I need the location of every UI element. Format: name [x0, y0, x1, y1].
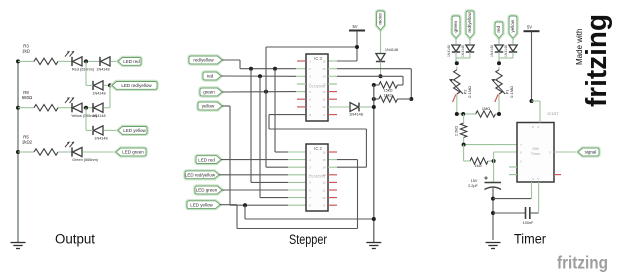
node output bus mid	[16, 106, 20, 110]
diode D5 1N4148 vertical	[376, 54, 385, 62]
svg-text:1N4148: 1N4148	[490, 45, 494, 57]
svg-text:5V: 5V	[352, 24, 357, 29]
node bottom rail	[372, 217, 376, 221]
resistor R8	[34, 105, 58, 111]
wire yellow down	[229, 106, 231, 205]
net tag LED red/yellow stepper	[185, 171, 219, 179]
svg-text:10: 10	[322, 196, 326, 200]
net tag yellow timer	[509, 16, 517, 38]
net tag LED green	[116, 148, 146, 156]
node red/yellow 2	[273, 67, 277, 71]
power +5V stepper	[349, 24, 365, 31]
net tag red/yellow	[189, 56, 222, 64]
node red/yellow 1	[249, 67, 253, 71]
resistor R15a	[379, 82, 398, 88]
wire down to R1k	[463, 145, 465, 161]
svg-text:14: 14	[322, 75, 326, 79]
wire R5 left lead	[18, 151, 34, 153]
svg-text:555: 555	[532, 147, 538, 151]
wire LEDyellow down	[236, 205, 238, 229]
resistor R3	[34, 58, 58, 64]
wire 1k junction up	[494, 152, 517, 181]
wire yellow to IC2 pin8	[230, 204, 306, 206]
svg-text:IC1ST: IC1ST	[547, 111, 559, 116]
node D5 rail	[379, 74, 383, 78]
bottom rail stepper	[245, 205, 374, 219]
logo fritzing vertical	[581, 14, 613, 107]
label IC 555	[547, 111, 559, 116]
svg-text:1MΩ: 1MΩ	[482, 106, 491, 111]
wire R8 left lead	[18, 107, 34, 109]
svg-text:green: green	[203, 90, 215, 95]
wire node A down	[85, 61, 87, 85]
svg-text:13: 13	[322, 82, 326, 86]
node 555 left	[462, 143, 466, 147]
wire node C down	[85, 108, 87, 131]
svg-text:15: 15	[322, 67, 326, 71]
svg-text:100nF: 100nF	[523, 221, 534, 225]
svg-text:LED red/yellow: LED red/yellow	[185, 173, 216, 178]
IC U3 555 timer	[517, 123, 554, 183]
label R5 value	[22, 135, 33, 145]
wire D2 to node B	[104, 84, 112, 86]
wire IC1 pin8 rail	[269, 115, 366, 168]
net tag signal	[578, 148, 599, 156]
pin stubs IC2 right	[328, 152, 337, 205]
label D3	[92, 114, 105, 118]
wire R1k leads	[464, 160, 494, 162]
svg-text:fritzing: fritzing	[557, 253, 608, 273]
svg-text:1kΩ: 1kΩ	[474, 163, 481, 168]
net tag LED green stepper	[195, 186, 222, 194]
svg-text:Stepper: Stepper	[289, 232, 327, 247]
svg-text:2.2kΩ: 2.2kΩ	[454, 126, 459, 137]
svg-text:yellow: yellow	[510, 19, 515, 32]
node pot P2 top	[455, 61, 459, 65]
wire rail down right	[410, 69, 412, 99]
wire LEDred to IC2 pin2	[221, 159, 306, 161]
wire tag2 down	[469, 38, 471, 44]
label R3 value	[22, 44, 31, 54]
svg-text:LED green: LED green	[122, 150, 144, 155]
svg-text:red/yellow: red/yellow	[467, 11, 472, 32]
LED LED3 green	[65, 142, 82, 157]
diode D2 1N4148	[93, 81, 103, 90]
wire node B down	[109, 85, 111, 107]
wire R15a right up	[398, 76, 404, 85]
potentiometer P2	[450, 67, 472, 102]
net tag LED yellow stepper	[187, 201, 220, 209]
svg-text:1N4148: 1N4148	[349, 112, 364, 117]
label D6	[349, 112, 364, 117]
svg-text:LED red/yellow: LED red/yellow	[121, 83, 152, 88]
wire drop4 to IC2 pin1	[275, 69, 306, 152]
wire to IC555 pin a	[464, 144, 517, 146]
wire D4 to tag	[104, 129, 118, 131]
net tag LED red/yellow	[112, 82, 157, 90]
resistor R2k2 vertical	[460, 123, 466, 138]
diode D6 1N4148	[328, 103, 374, 112]
resistor R1k	[470, 158, 488, 164]
label R15a R15b	[383, 88, 392, 98]
label R1k	[474, 163, 481, 168]
svg-text:15: 15	[322, 158, 326, 162]
svg-text:yellow: yellow	[202, 104, 215, 109]
wire jog to top pin	[530, 99, 541, 123]
wire to C2	[493, 212, 525, 214]
wire C to D4	[86, 129, 93, 131]
svg-text:14: 14	[322, 166, 326, 170]
wire LEDgreen to IC2 pin6	[222, 189, 306, 191]
wire tag4 down	[512, 38, 514, 44]
svg-text:LED yellow: LED yellow	[190, 202, 213, 207]
svg-text:16: 16	[322, 59, 326, 63]
wire output left bus	[17, 61, 19, 242]
node output bus low	[16, 150, 20, 154]
net tag green timer	[452, 16, 460, 38]
pin stubs 555	[509, 167, 561, 175]
svg-text:LED green: LED green	[196, 188, 218, 193]
wire to 555 bottom pin1	[493, 182, 532, 199]
node R1M left	[455, 112, 501, 116]
svg-text:signal: signal	[585, 150, 597, 155]
wire top rail	[266, 46, 357, 48]
IC U2 stepper driver	[306, 144, 328, 211]
wire D3 to node B leg	[104, 107, 110, 109]
node R left b	[372, 97, 376, 101]
svg-text:680Ω: 680Ω	[22, 95, 33, 100]
wire LEDyellow bottom run	[237, 228, 358, 230]
svg-text:Timer: Timer	[514, 232, 546, 247]
wire 5V drop	[356, 31, 358, 61]
wire bus D2 left	[86, 84, 93, 86]
wire pin2 right rail	[328, 68, 411, 70]
net tag yellow	[198, 102, 222, 110]
section title Output	[55, 232, 95, 247]
wire red to IC1 pin3	[221, 75, 306, 77]
diode D7 1N4148	[452, 45, 460, 52]
svg-text:1kΩ: 1kΩ	[22, 49, 31, 54]
wire yellow corner	[222, 105, 230, 107]
wire Vrail left down	[265, 47, 267, 92]
svg-text:Timer: Timer	[531, 152, 541, 156]
svg-text:red: red	[496, 25, 501, 32]
svg-text:1N4148: 1N4148	[385, 48, 398, 52]
label D8	[461, 45, 465, 57]
wire pin3 right row	[328, 75, 403, 77]
node A	[84, 59, 88, 63]
wire R3 to LED1	[58, 60, 72, 62]
node pot P1 top	[497, 61, 501, 65]
svg-text:green: green	[453, 20, 458, 32]
node red	[258, 74, 262, 78]
label LED1	[72, 68, 95, 72]
svg-text:15kΩ: 15kΩ	[383, 93, 392, 98]
label C2	[523, 221, 534, 225]
wire LED3 to tag	[83, 151, 116, 153]
svg-text:1kΩ2: 1kΩ2	[22, 140, 33, 145]
wire LED1 to node A	[83, 60, 100, 62]
svg-text:IC 3: IC 3	[314, 56, 322, 61]
wire LED2 to node C	[83, 107, 93, 109]
capacitor C1 2.2uF	[484, 176, 501, 198]
node yellow row	[243, 203, 247, 207]
svg-text:red/yellow: red/yellow	[193, 58, 214, 63]
node R1k right	[492, 159, 496, 163]
wire P2 bottom	[457, 97, 463, 114]
svg-text:Red (633nm): Red (633nm)	[72, 68, 95, 72]
wire drop3 green to IC2 pin3	[266, 92, 306, 167]
node B	[108, 83, 112, 87]
svg-text:5V: 5V	[527, 25, 532, 30]
diode D1 1N4148	[100, 57, 110, 66]
svg-text:1N4148: 1N4148	[447, 45, 451, 57]
LED LED2 yellow	[65, 97, 82, 112]
net tag green	[200, 88, 222, 96]
node output bus top	[16, 59, 20, 63]
wire R8 to LED2	[58, 107, 72, 109]
LED LED1 red	[65, 51, 82, 66]
wire R15a left	[374, 84, 379, 86]
svg-text:0.1MΩ: 0.1MΩ	[467, 86, 472, 98]
resistor R1M	[476, 111, 496, 117]
diode D4 1N4148	[93, 126, 103, 135]
svg-text:10: 10	[322, 105, 326, 109]
diode D9 1N4148	[495, 45, 503, 52]
svg-text:motor: motor	[378, 12, 383, 24]
wire drop2 red to IC2 pin7	[260, 76, 306, 197]
label D7	[447, 45, 451, 57]
label D4	[94, 137, 107, 141]
svg-text:12: 12	[322, 181, 326, 185]
wire P1 bottom	[498, 97, 500, 114]
net tag red/yellow timer	[466, 11, 474, 38]
net tag LED red stepper	[196, 156, 221, 164]
net tag red timer	[495, 22, 503, 38]
svg-text:1N4148: 1N4148	[92, 114, 105, 118]
node D6 join	[372, 105, 376, 109]
wire D1 to tag	[111, 60, 118, 62]
wire R1M leads	[463, 113, 499, 115]
svg-text:LED red: LED red	[123, 59, 140, 64]
wire D7 D8 join	[456, 52, 470, 63]
wire LEDyellow up to IC2 right pin2	[328, 160, 358, 229]
ground output	[11, 243, 26, 249]
wire D9 D10 join	[499, 52, 513, 63]
label C1	[468, 179, 478, 188]
diode D8 1N4148	[466, 45, 474, 52]
net tag LED yellow	[118, 127, 147, 135]
wire D5 to pin3 row	[380, 62, 382, 77]
wire LEDyellow corner	[220, 204, 237, 206]
wire R3 left lead	[18, 60, 34, 62]
ground timer	[486, 243, 501, 249]
diode D3 1N4148	[93, 103, 103, 112]
node cap1	[491, 197, 495, 201]
logo made with	[575, 29, 584, 65]
watermark fritzing	[557, 253, 608, 273]
label D1	[96, 68, 109, 72]
net tag motor	[377, 11, 385, 30]
label D2	[92, 92, 105, 96]
label LED2	[71, 114, 98, 118]
wire 5V to IC1 right pin1	[328, 60, 357, 62]
section title Timer	[514, 232, 546, 247]
IC U1 stepper driver	[306, 54, 328, 121]
node C	[84, 106, 88, 110]
svg-text:1N4148: 1N4148	[96, 68, 109, 72]
wire R2k2 leads	[463, 114, 465, 145]
svg-text:1N4148: 1N4148	[94, 137, 107, 141]
resistor R5	[34, 149, 58, 155]
node green	[264, 90, 268, 94]
svg-text:16: 16	[322, 150, 326, 154]
wire 5V drop timer	[524, 25, 540, 101]
svg-text:0.1MΩ: 0.1MΩ	[509, 86, 514, 98]
label R2k2	[454, 126, 459, 137]
svg-text:fritzing: fritzing	[581, 14, 613, 107]
wire cap down	[492, 199, 494, 240]
svg-text:11: 11	[323, 188, 326, 192]
svg-text:12: 12	[322, 90, 326, 94]
ground stepper	[366, 243, 381, 249]
potentiometer P1	[492, 67, 514, 102]
node rail res	[409, 97, 413, 101]
wire red/yellow to corner	[222, 59, 240, 61]
pin stubs IC1 left	[297, 61, 306, 107]
label D10	[504, 45, 508, 57]
svg-text:LED yellow: LED yellow	[123, 128, 146, 133]
label D9	[490, 45, 494, 57]
svg-text:1N4148: 1N4148	[92, 92, 105, 96]
net tag LED red	[118, 58, 141, 66]
node 5V rail	[355, 45, 359, 49]
section title Stepper	[289, 232, 327, 247]
label R1M	[482, 106, 491, 111]
wire LEDredyellow to IC2 pin4	[219, 174, 306, 176]
label LED3	[72, 158, 98, 162]
wire red/yellow down	[239, 60, 241, 69]
diode D10 1N4148	[509, 45, 517, 52]
svg-text:2.2μF: 2.2μF	[468, 184, 478, 188]
label D5	[385, 48, 398, 52]
net tag red	[203, 72, 221, 80]
node cap2	[491, 211, 495, 215]
svg-text:red: red	[207, 74, 214, 79]
wire R15b leads	[374, 98, 412, 100]
pin stubs IC1 right	[328, 84, 337, 115]
svg-text:LED red: LED red	[198, 157, 215, 162]
wire tag3 down	[498, 38, 500, 44]
wire tag1 down	[455, 38, 457, 44]
wire drop1 redyellow to IC2 pin5	[251, 69, 306, 183]
capacitor C2 100nF	[526, 182, 539, 219]
svg-text:11: 11	[323, 98, 326, 102]
wire green to IC1 pin5	[222, 91, 306, 93]
wire signal out	[554, 151, 578, 153]
svg-text:Output: Output	[55, 232, 95, 247]
svg-text:1N4148: 1N4148	[461, 45, 465, 57]
svg-text:15V: 15V	[471, 179, 478, 183]
wire motor down	[380, 30, 382, 53]
svg-text:Green (565nm): Green (565nm)	[72, 158, 98, 162]
wire ground vertical stepper	[373, 85, 375, 242]
resistor R15b	[379, 96, 398, 102]
label R8 value	[22, 90, 33, 100]
svg-text:13: 13	[322, 173, 326, 177]
wire red/yellow to IC1 pin2	[240, 68, 306, 70]
node R left a	[372, 83, 376, 87]
svg-text:IC 2: IC 2	[314, 146, 322, 151]
wire R5 to LED3	[58, 151, 72, 153]
svg-text:1N4148: 1N4148	[504, 45, 508, 57]
